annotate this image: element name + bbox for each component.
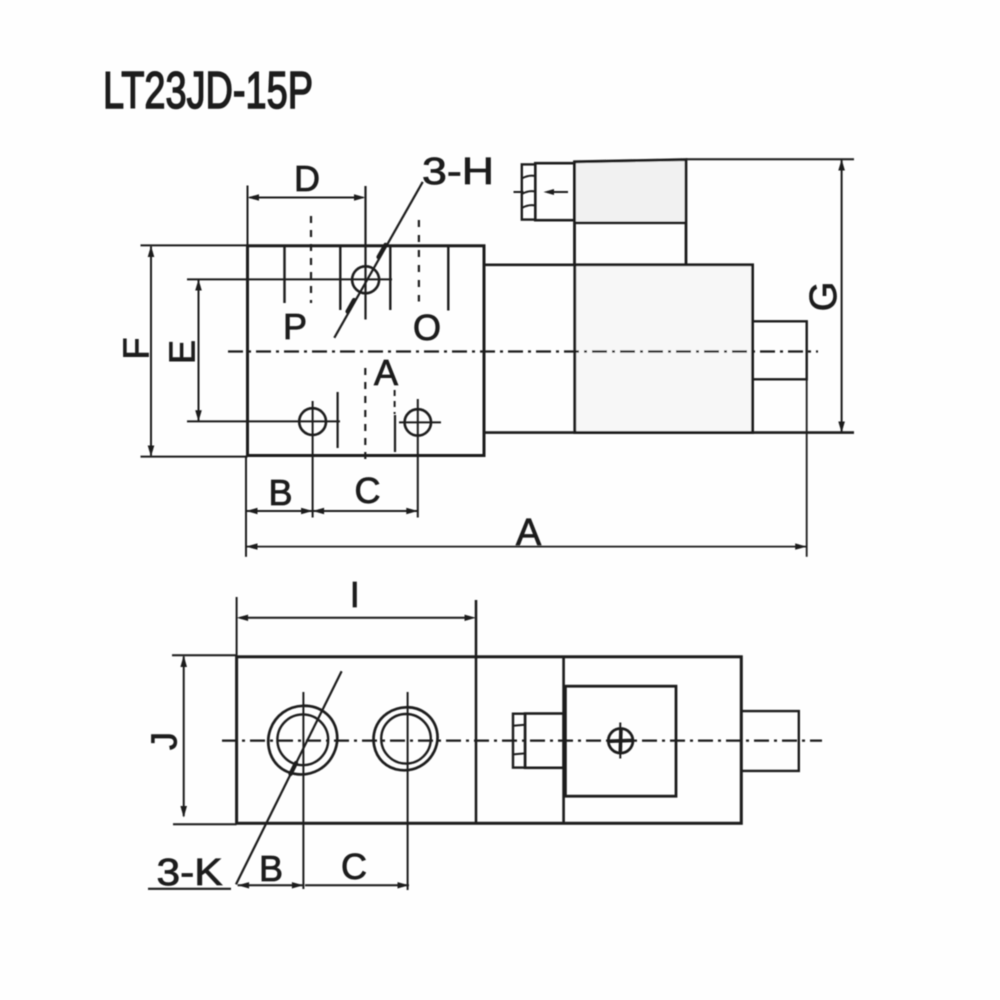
- svg-text:G: G: [803, 282, 845, 312]
- connector box: [575, 160, 687, 265]
- tick line top 4: [447, 246, 449, 311]
- tick line top 1: [283, 246, 285, 303]
- hole B2 horizontal line: [399, 421, 441, 423]
- svg-text:F: F: [116, 338, 157, 360]
- port 1 axis: [302, 692, 304, 889]
- port 2 axis: [407, 692, 409, 890]
- tick line top 2: [339, 246, 341, 310]
- gland threaded end (top view): [513, 714, 525, 768]
- I arrow right: [465, 615, 477, 621]
- B arrow left (front): [246, 508, 258, 514]
- main horizontal centerline: [228, 350, 818, 352]
- A arrow left: [246, 543, 258, 549]
- E top extension line through hole: [187, 278, 392, 280]
- hole B2 axis: [417, 399, 419, 518]
- tick line top 3: [389, 246, 391, 310]
- dimension A line: [246, 546, 807, 548]
- dimension I line: [240, 617, 470, 619]
- D arrow right: [354, 194, 366, 201]
- divider 1 (block / middle) with I extension above: [475, 600, 478, 823]
- solenoid body fill: [575, 265, 753, 433]
- assembly bottom line: [484, 431, 854, 434]
- threaded port 2 inner: [381, 714, 431, 764]
- gland centerline arrow: [544, 189, 555, 195]
- E bottom extension line through hole B1: [187, 420, 340, 422]
- svg-text:C: C: [355, 470, 381, 511]
- connector box upper fill: [575, 160, 687, 223]
- gland thread line 3: [522, 205, 536, 208]
- J arrow bottom: [180, 806, 187, 818]
- I extension left: [236, 597, 238, 657]
- dashes above that line: [394, 390, 396, 414]
- svg-text:3-H: 3-H: [422, 151, 494, 193]
- B arrow right (front): [301, 508, 313, 514]
- svg-text:A: A: [516, 512, 542, 554]
- E arrow top: [195, 279, 202, 290]
- svg-text:B: B: [259, 848, 283, 889]
- J arrow top: [180, 655, 187, 667]
- bottom hole B1: [299, 408, 326, 435]
- dimension D line: [250, 197, 364, 199]
- A dim left extension: [245, 456, 247, 557]
- leader blob 1: [379, 245, 386, 257]
- F top extension: [141, 244, 248, 246]
- leader blob 2: [348, 300, 355, 312]
- svg-text:E: E: [162, 340, 203, 364]
- E arrow bottom: [195, 410, 202, 421]
- divider 2 (middle / solenoid): [562, 657, 565, 823]
- dimension F line: [150, 247, 152, 456]
- B arrow left (top): [238, 882, 250, 888]
- hidden hole line (dashed) top 2: [418, 220, 420, 302]
- gland thread line 1 (top): [513, 725, 525, 726]
- svg-text:I: I: [350, 574, 360, 615]
- hole B1 axis: [312, 401, 314, 518]
- svg-text:A: A: [374, 352, 398, 393]
- nub right extension down: [806, 321, 808, 557]
- screw cross: [610, 739, 632, 743]
- right nub (front): [753, 321, 807, 379]
- hidden A-port axis (dashed): [364, 368, 366, 463]
- inner connector square (top view): [565, 686, 676, 796]
- F arrow bottom: [148, 446, 155, 457]
- dimension B line (front): [246, 510, 313, 512]
- short vertical line right of B1: [337, 392, 339, 448]
- threaded port 2 outer: [374, 707, 438, 770]
- bottom hole B2: [405, 409, 431, 435]
- svg-text:LT23JD-15P: LT23JD-15P: [103, 62, 313, 120]
- gland thread line 1: [522, 176, 536, 179]
- right nub (top view): [741, 711, 799, 771]
- leader line 3-H: [334, 182, 422, 338]
- 3-K underline: [148, 888, 231, 890]
- threaded port 1 outer: [268, 706, 337, 775]
- screw head circle: [608, 729, 633, 754]
- gland body (top view): [525, 714, 564, 768]
- I arrow left: [237, 615, 249, 621]
- svg-text:C: C: [341, 846, 367, 887]
- F arrow top: [148, 246, 155, 257]
- dimension J line: [183, 656, 185, 816]
- svg-text:O: O: [413, 307, 441, 348]
- gland centerline tail: [552, 191, 568, 193]
- D arrow left: [248, 194, 260, 201]
- D extension left: [247, 186, 249, 246]
- gland thread line 2: [522, 191, 536, 194]
- top hole axis: [364, 186, 366, 320]
- A arrow right: [795, 543, 807, 549]
- svg-text:D: D: [294, 158, 320, 199]
- B arrow right (top): [292, 882, 304, 888]
- neck top edge: [484, 263, 575, 266]
- top view outer body: [237, 657, 742, 824]
- connector divider: [575, 222, 687, 225]
- dimension G line: [841, 159, 843, 432]
- hidden hole line (dashed) top 1: [310, 216, 312, 303]
- dimension C line (front): [313, 510, 418, 512]
- C arrow right (front): [406, 508, 418, 514]
- leader 3-K blob: [291, 763, 297, 774]
- threaded port 1 inner: [277, 714, 328, 765]
- gland thread line 2 (top): [513, 753, 525, 754]
- solenoid outline: [575, 265, 753, 433]
- F bottom extension: [141, 456, 248, 458]
- gland centerline dash: [514, 191, 524, 193]
- svg-text:P: P: [283, 306, 307, 347]
- C arrow left (front): [313, 508, 325, 514]
- cable gland threaded end: [522, 164, 536, 219]
- top view centerline: [222, 739, 822, 741]
- dimension C line (top): [305, 884, 409, 886]
- dimension E line: [198, 280, 200, 421]
- screw axis vertical: [619, 723, 621, 763]
- J bottom extension: [173, 823, 237, 825]
- leader line 3-K: [236, 671, 342, 884]
- main valve block: [248, 246, 485, 456]
- dimension B line (top): [238, 884, 304, 886]
- C arrow right (top): [398, 882, 410, 888]
- svg-text:B: B: [268, 472, 292, 513]
- short vertical line left of B2: [394, 415, 396, 452]
- top mounting hole 3-H: [352, 266, 379, 293]
- G top extension: [686, 158, 854, 160]
- svg-text:J: J: [144, 732, 185, 750]
- G arrow bottom: [838, 422, 845, 433]
- cable gland body: [535, 163, 574, 220]
- G arrow top: [838, 159, 845, 170]
- J top extension: [172, 654, 237, 656]
